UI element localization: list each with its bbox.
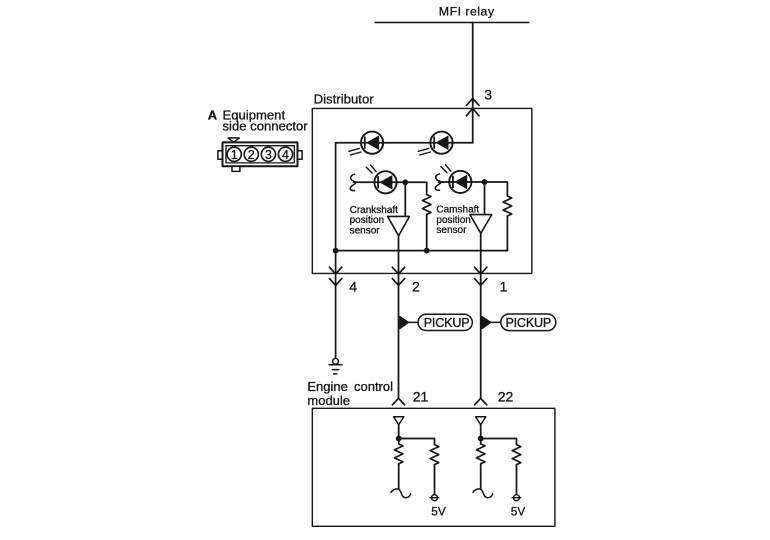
- connector pin 2 chevron upper: [392, 267, 404, 274]
- connector pin 2 chevron lower: [392, 279, 404, 286]
- wire buffer U2 output to ECM pin 22: [480, 233, 482, 398]
- junction dot node 22: [478, 436, 484, 442]
- svg-text:sensor: sensor: [350, 226, 381, 237]
- junction dot camshaft output node: [482, 179, 488, 185]
- svg-text:21: 21: [413, 388, 429, 404]
- wire node 22 to resistor R5: [480, 439, 482, 444]
- svg-text:4: 4: [349, 280, 357, 296]
- svg-text:2: 2: [412, 280, 420, 296]
- wire node to resistor R1: [405, 182, 426, 194]
- wire break squiggle (camshaft): [435, 174, 441, 190]
- wire break squiggle (crankshaft): [350, 174, 356, 190]
- connector pin 1 chevron upper: [475, 267, 487, 274]
- resistor R5: [476, 444, 485, 464]
- wire R6 to 5V terminal: [516, 465, 518, 495]
- svg-text:Camshaft: Camshaft: [436, 204, 479, 215]
- connector A pin 1: [227, 147, 241, 161]
- svg-text:5V: 5V: [431, 505, 446, 519]
- wire camshaft photodiode input with break squiggle: [439, 181, 485, 183]
- svg-text:side connector: side connector: [223, 119, 309, 134]
- wire node into buffer U2: [484, 182, 486, 215]
- connector pin 1 chevron lower: [475, 279, 487, 286]
- connector pin 4 chevron upper: [329, 267, 341, 274]
- connector A pin 3: [261, 147, 275, 161]
- PICKUP 1 lead: [409, 321, 418, 323]
- junction dot node 21: [396, 436, 402, 442]
- wire crankshaft photodiode input with break squiggle: [354, 181, 406, 183]
- connector A pin 2: [244, 147, 258, 161]
- wire node 22 to resistor R6: [481, 439, 517, 445]
- ECM input terminal triangle (22): [476, 417, 486, 425]
- wire terminal to node (21): [398, 425, 400, 439]
- wire node 21 to resistor R3: [398, 439, 400, 444]
- connector pin 3 chevron upper: [466, 98, 479, 105]
- resistor R6: [512, 445, 521, 465]
- svg-text:module: module: [307, 393, 350, 408]
- svg-text:4: 4: [282, 148, 289, 162]
- svg-text:A: A: [208, 108, 217, 123]
- wire R1 to bus: [426, 215, 428, 251]
- equipment side connector A: right tab: [298, 151, 303, 159]
- wire MFI relay to distributor pin 3: [472, 23, 474, 143]
- svg-text:Crankshaft: Crankshaft: [350, 205, 399, 216]
- wire break squiggle below R3: [391, 489, 411, 498]
- PICKUP 2 oval label: [501, 314, 556, 331]
- PICKUP 1 oval label: [418, 314, 472, 330]
- engine control module box: [312, 408, 555, 526]
- svg-text:Engine control: Engine control: [307, 379, 393, 394]
- wire pin 4 to ground: [335, 251, 337, 359]
- equipment side connector A: bottom tab: [232, 166, 240, 171]
- equipment side connector A: left tab: [218, 151, 222, 159]
- svg-text:PICKUP: PICKUP: [505, 316, 551, 330]
- wire break squiggle below R5: [473, 489, 493, 498]
- buffer U2 (camshaft): [470, 215, 492, 234]
- distributor box: [312, 108, 532, 273]
- junction dot bus left: [333, 248, 339, 254]
- resistor R2: [503, 196, 512, 216]
- svg-text:MFI relay: MFI relay: [439, 4, 495, 18]
- photodiode D4 camshaft: [441, 165, 471, 193]
- wire terminal to node (22): [480, 425, 482, 439]
- svg-text:Distributor: Distributor: [314, 91, 375, 106]
- svg-text:3: 3: [265, 148, 272, 162]
- wire ground bus inside distributor: [336, 250, 508, 252]
- ECM input terminal triangle (21): [394, 417, 404, 425]
- 5V terminal (22 side): [512, 495, 521, 501]
- resistor R4: [430, 445, 439, 465]
- LED D2: [418, 132, 452, 155]
- junction dot bus at R1: [424, 248, 430, 254]
- connector pin 3 chevron lower: [466, 108, 479, 115]
- svg-text:PICKUP: PICKUP: [424, 316, 470, 330]
- svg-text:3: 3: [484, 87, 492, 103]
- svg-text:1: 1: [500, 280, 508, 296]
- LED D1: [349, 132, 383, 155]
- svg-text:5V: 5V: [511, 505, 526, 519]
- equipment side connector A: outer housing: [223, 142, 298, 166]
- svg-text:2: 2: [248, 148, 255, 162]
- wire node 21 to resistor R4: [399, 439, 435, 445]
- svg-text:1: 1: [231, 148, 238, 162]
- wire R3 down to break: [398, 464, 400, 489]
- equipment side connector A: inner housing: [226, 146, 294, 163]
- svg-text:22: 22: [498, 388, 514, 404]
- ground symbol: [329, 358, 342, 374]
- PICKUP test connector on wire 1: triangle: [482, 316, 491, 329]
- resistor R3: [394, 444, 403, 464]
- wire MFI relay bus: [375, 22, 529, 24]
- connector pin 4 chevron lower: [329, 279, 341, 286]
- ECM pin 21 chevron: [392, 398, 404, 405]
- wire buffer U1 output to ECM pin 21: [398, 236, 400, 398]
- 5V terminal (21 side): [430, 495, 439, 501]
- wire node into buffer U1: [404, 182, 406, 216]
- junction dot crankshaft output node: [402, 179, 408, 185]
- wire R4 to 5V terminal: [434, 465, 436, 495]
- photodiode D3 crankshaft: [366, 165, 396, 193]
- wire node to resistor R2: [485, 182, 508, 196]
- ECM pin 22 chevron: [475, 398, 487, 405]
- PICKUP 2 lead: [491, 321, 501, 323]
- svg-text:sensor: sensor: [436, 225, 467, 236]
- wire LED row from pin 3 down-left and to bus: [336, 143, 473, 251]
- connector A pin 4: [278, 147, 292, 161]
- equipment side connector A: top lock tab: [228, 138, 239, 142]
- PICKUP test connector on wire 2: triangle: [400, 316, 409, 329]
- wire R5 down to break: [480, 464, 482, 489]
- resistor R1: [422, 195, 431, 215]
- wire R2 to bus: [506, 216, 508, 251]
- buffer U1 (crankshaft): [388, 216, 410, 235]
